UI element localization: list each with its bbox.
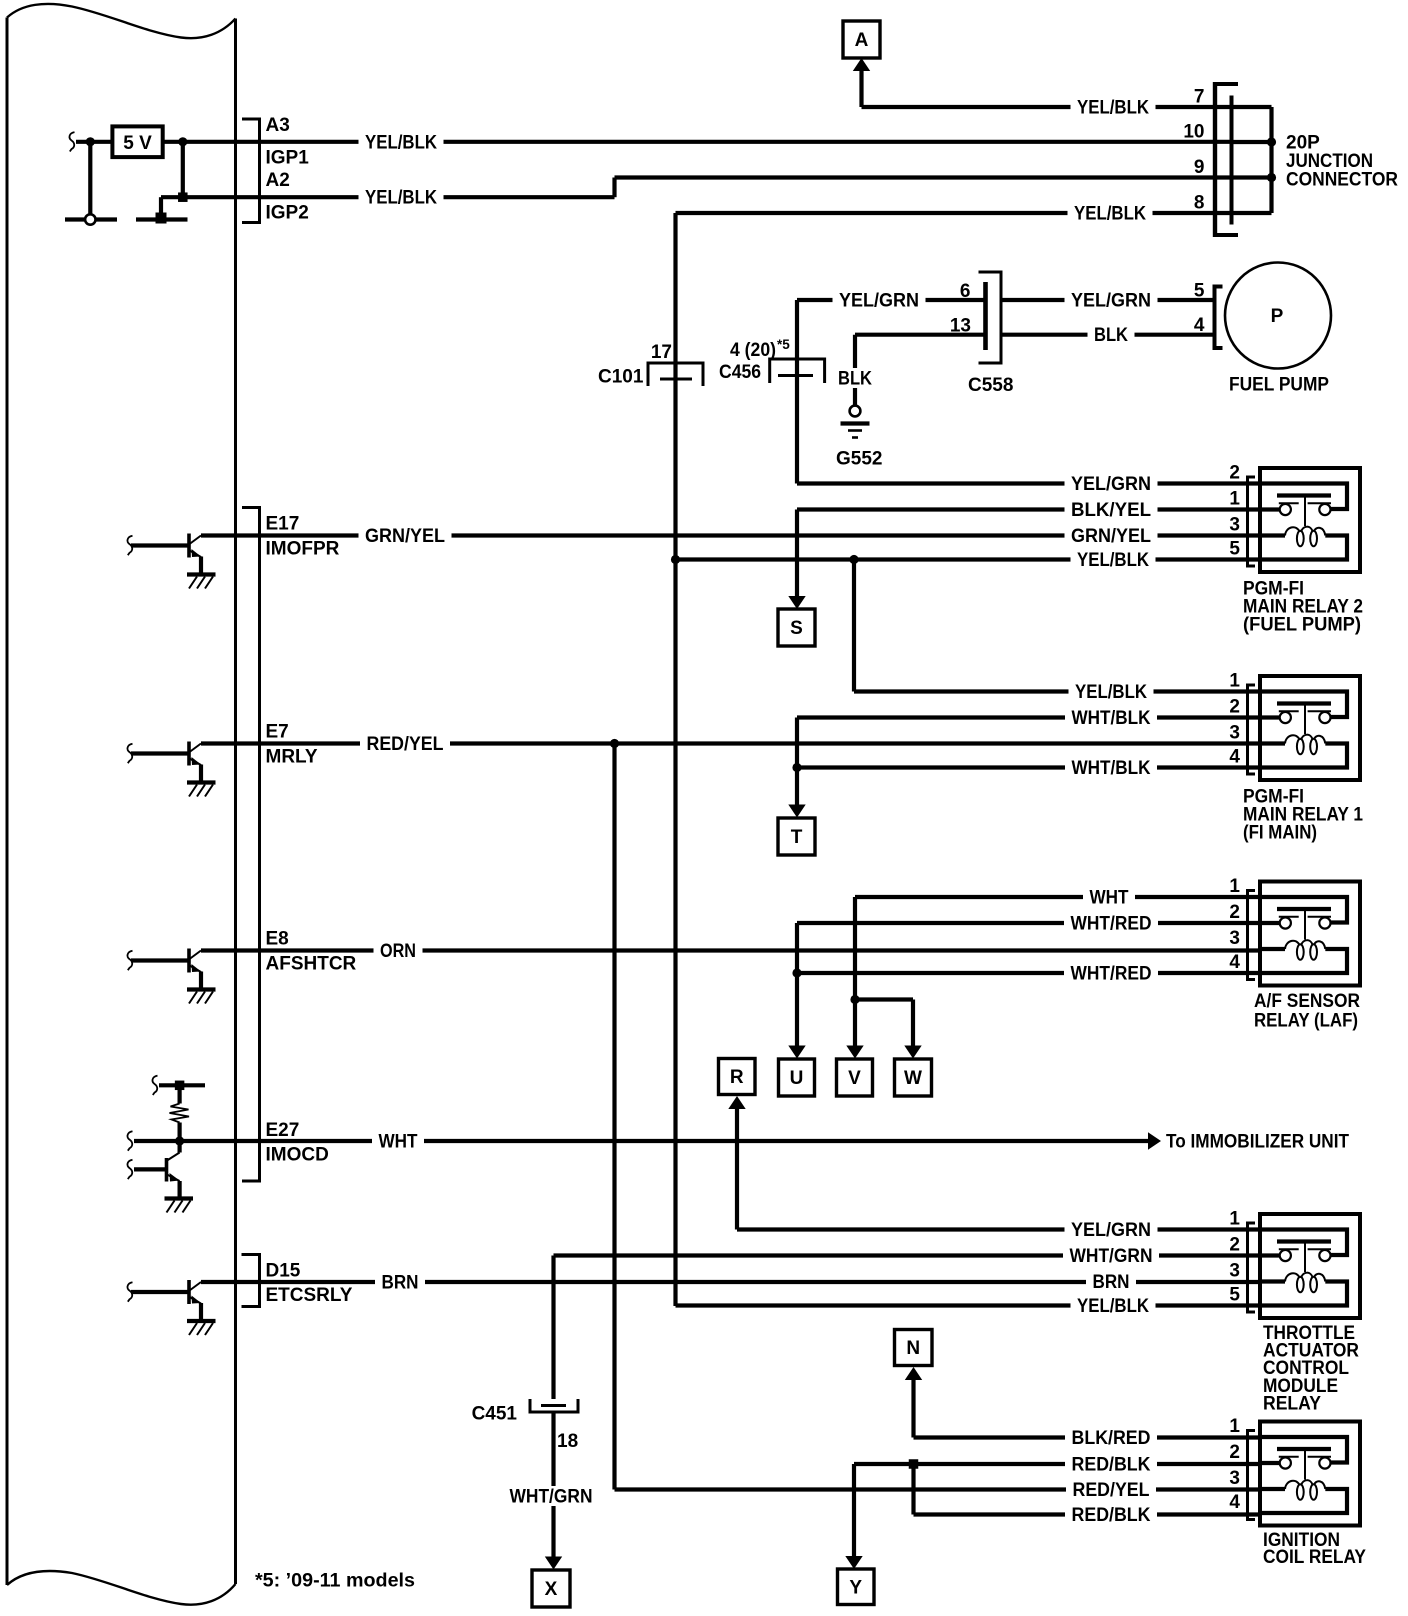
svg-text:3: 3 xyxy=(1229,1261,1240,1282)
svg-text:17: 17 xyxy=(651,342,672,363)
svg-text:4: 4 xyxy=(1194,315,1205,336)
svg-text:YEL/BLK: YEL/BLK xyxy=(1077,98,1149,119)
svg-text:ETCSRLY: ETCSRLY xyxy=(266,1285,353,1306)
svg-text:WHT: WHT xyxy=(1090,888,1129,909)
svg-text:YEL/BLK: YEL/BLK xyxy=(1074,204,1146,225)
svg-text:3: 3 xyxy=(1229,928,1240,949)
svg-text:WHT/RED: WHT/RED xyxy=(1071,914,1152,935)
svg-text:WHT/GRN: WHT/GRN xyxy=(510,1487,593,1508)
svg-text:9: 9 xyxy=(1194,157,1205,178)
svg-text:13: 13 xyxy=(950,316,971,337)
svg-text:3: 3 xyxy=(1229,1468,1240,1489)
svg-text:BRN: BRN xyxy=(382,1273,419,1294)
svg-text:*5: ’09-11 models: *5: ’09-11 models xyxy=(255,1571,415,1592)
svg-text:A2: A2 xyxy=(266,170,290,191)
svg-text:G552: G552 xyxy=(836,449,882,470)
svg-text:AFSHTCR: AFSHTCR xyxy=(266,954,357,975)
svg-text:18: 18 xyxy=(557,1431,578,1452)
svg-text:RELAY: RELAY xyxy=(1263,1393,1321,1414)
svg-text:GRN/YEL: GRN/YEL xyxy=(365,526,445,547)
svg-text:*5: *5 xyxy=(777,337,790,352)
svg-text:IMOFPR: IMOFPR xyxy=(266,539,340,560)
svg-text:C558: C558 xyxy=(968,375,1013,396)
svg-text:COIL RELAY: COIL RELAY xyxy=(1263,1547,1366,1568)
svg-text:E7: E7 xyxy=(266,722,289,743)
svg-text:5: 5 xyxy=(1229,1285,1240,1306)
svg-text:BLK: BLK xyxy=(838,369,872,390)
svg-text:X: X xyxy=(545,1579,558,1600)
svg-text:(FI MAIN): (FI MAIN) xyxy=(1243,822,1317,843)
svg-text:V: V xyxy=(848,1068,861,1089)
svg-text:YEL/GRN: YEL/GRN xyxy=(839,291,919,312)
svg-text:2: 2 xyxy=(1229,1235,1240,1256)
svg-text:5 V: 5 V xyxy=(123,133,152,154)
svg-text:1: 1 xyxy=(1229,1416,1240,1437)
svg-text:Y: Y xyxy=(849,1577,862,1598)
svg-text:RED/YEL: RED/YEL xyxy=(367,734,444,755)
svg-text:N: N xyxy=(906,1338,920,1359)
svg-text:RED/BLK: RED/BLK xyxy=(1072,1505,1151,1526)
svg-text:C456: C456 xyxy=(719,362,761,383)
svg-text:BLK/YEL: BLK/YEL xyxy=(1071,500,1151,521)
svg-text:YEL/BLK: YEL/BLK xyxy=(365,132,437,153)
svg-text:4: 4 xyxy=(1229,952,1240,973)
svg-text:W: W xyxy=(904,1068,922,1089)
svg-text:YEL/BLK: YEL/BLK xyxy=(365,188,437,209)
svg-text:A/F SENSOR: A/F SENSOR xyxy=(1254,991,1360,1012)
svg-text:FUEL PUMP: FUEL PUMP xyxy=(1229,375,1329,396)
svg-text:E17: E17 xyxy=(266,514,300,535)
svg-text:A: A xyxy=(855,30,869,51)
svg-text:2: 2 xyxy=(1229,463,1240,484)
svg-text:4: 4 xyxy=(1229,1492,1240,1513)
svg-text:5: 5 xyxy=(1229,539,1240,560)
svg-text:2: 2 xyxy=(1229,697,1240,718)
svg-text:BRN: BRN xyxy=(1093,1272,1130,1293)
svg-text:7: 7 xyxy=(1194,87,1205,108)
svg-text:E8: E8 xyxy=(266,929,289,950)
svg-text:IGP2: IGP2 xyxy=(266,203,309,224)
svg-text:YEL/BLK: YEL/BLK xyxy=(1077,550,1149,571)
svg-text:(FUEL PUMP): (FUEL PUMP) xyxy=(1243,614,1361,635)
svg-text:4: 4 xyxy=(1229,747,1240,768)
svg-text:U: U xyxy=(790,1068,804,1089)
svg-text:IMOCD: IMOCD xyxy=(266,1145,329,1166)
svg-text:CONNECTOR: CONNECTOR xyxy=(1286,169,1398,190)
svg-text:6: 6 xyxy=(960,281,971,302)
svg-text:8: 8 xyxy=(1194,193,1205,214)
svg-text:RELAY (LAF): RELAY (LAF) xyxy=(1254,1010,1358,1031)
svg-text:2: 2 xyxy=(1229,1442,1240,1463)
svg-text:T: T xyxy=(791,827,803,848)
svg-text:5: 5 xyxy=(1194,281,1205,302)
svg-text:WHT/BLK: WHT/BLK xyxy=(1072,758,1151,779)
svg-text:1: 1 xyxy=(1229,876,1240,897)
svg-text:S: S xyxy=(790,618,803,639)
svg-text:WHT: WHT xyxy=(379,1132,418,1153)
svg-text:RED/BLK: RED/BLK xyxy=(1072,1455,1151,1476)
svg-text:WHT/GRN: WHT/GRN xyxy=(1070,1246,1153,1267)
svg-text:1: 1 xyxy=(1229,1209,1240,1230)
svg-text:YEL/BLK: YEL/BLK xyxy=(1075,682,1147,703)
svg-text:R: R xyxy=(730,1067,744,1088)
svg-text:RED/YEL: RED/YEL xyxy=(1073,1480,1150,1501)
svg-text:WHT/BLK: WHT/BLK xyxy=(1072,708,1151,729)
svg-text:YEL/GRN: YEL/GRN xyxy=(1071,474,1151,495)
svg-text:3: 3 xyxy=(1229,515,1240,536)
svg-text:1: 1 xyxy=(1229,671,1240,692)
svg-text:YEL/GRN: YEL/GRN xyxy=(1071,291,1151,312)
svg-text:To IMMOBILIZER UNIT: To IMMOBILIZER UNIT xyxy=(1166,1132,1349,1153)
svg-text:3: 3 xyxy=(1229,723,1240,744)
svg-text:BLK: BLK xyxy=(1094,325,1128,346)
svg-text:P: P xyxy=(1271,306,1284,327)
svg-text:10: 10 xyxy=(1183,122,1204,143)
svg-text:YEL/GRN: YEL/GRN xyxy=(1071,1220,1151,1241)
svg-text:BLK/RED: BLK/RED xyxy=(1072,1428,1151,1449)
svg-text:MRLY: MRLY xyxy=(266,747,318,768)
svg-text:C101: C101 xyxy=(598,367,644,388)
svg-text:4 (20): 4 (20) xyxy=(730,340,776,361)
svg-text:IGP1: IGP1 xyxy=(266,147,310,168)
svg-text:2: 2 xyxy=(1229,902,1240,923)
svg-text:A3: A3 xyxy=(266,115,290,136)
svg-text:D15: D15 xyxy=(266,1261,301,1282)
svg-text:E27: E27 xyxy=(266,1120,300,1141)
svg-text:WHT/RED: WHT/RED xyxy=(1071,964,1152,985)
svg-text:1: 1 xyxy=(1229,489,1240,510)
svg-text:C451: C451 xyxy=(472,1404,518,1425)
svg-text:ORN: ORN xyxy=(380,941,416,962)
svg-text:YEL/BLK: YEL/BLK xyxy=(1077,1296,1149,1317)
svg-text:GRN/YEL: GRN/YEL xyxy=(1071,526,1151,547)
